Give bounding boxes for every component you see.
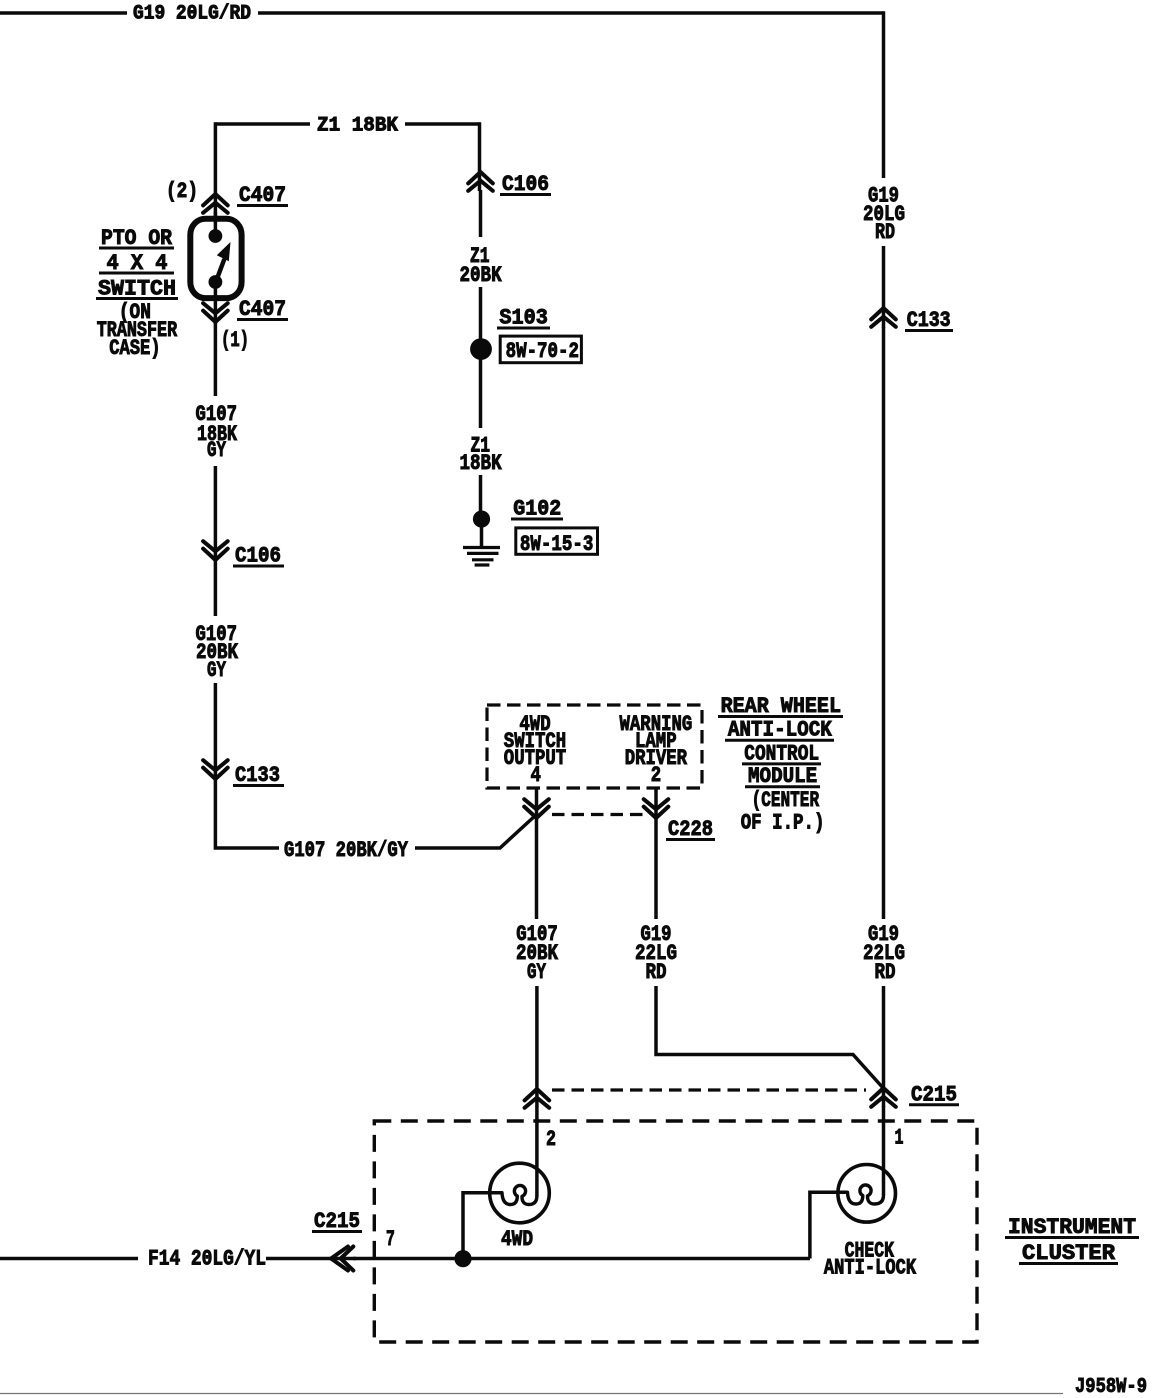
wire segment G107 upper: [214, 322, 218, 396]
label 4WD: [501, 1227, 533, 1252]
lamp 4WD bulb: [490, 1163, 550, 1223]
wire F14 20LG/YL left: [0, 1257, 138, 1261]
wire Z1 segment: [479, 190, 483, 237]
wire Z1 18BK horizontal: [215, 122, 479, 126]
label C133 left: [233, 763, 284, 788]
svg-text:GY: GY: [207, 438, 227, 463]
footer hairline: [0, 1393, 1063, 1395]
label G19 20LG RD right wire: [863, 184, 905, 246]
svg-text:F14 20LG/YL: F14 20LG/YL: [148, 1247, 266, 1272]
label WARNING LAMP DRIVER pin 2: [620, 712, 693, 788]
label G19 20LG/RD: [133, 3, 251, 26]
svg-text:4: 4: [531, 763, 541, 788]
instrument cluster box: [374, 1121, 977, 1342]
wire Z1 to splice: [479, 287, 483, 340]
svg-text:GY: GY: [207, 658, 227, 683]
svg-text:18BK: 18BK: [460, 451, 503, 476]
svg-text:1: 1: [895, 1126, 904, 1151]
label C133 right: [905, 308, 953, 333]
wire G19 right to C215: [882, 986, 886, 1107]
svg-text:RD: RD: [875, 960, 896, 985]
connector C228 dashed link: [552, 813, 643, 816]
label (ON TRANSFER CASE): [97, 300, 178, 361]
wire into switch: [214, 212, 218, 236]
label C228: [666, 817, 715, 842]
svg-text:J958W-9: J958W-9: [1075, 1376, 1147, 1398]
wire Z1 18BK lower segment: [479, 358, 483, 428]
label (1): [221, 328, 249, 353]
wire G19 from pin2 down: [654, 817, 658, 919]
label C407 lower: [237, 297, 288, 322]
svg-text:20BK: 20BK: [460, 263, 503, 288]
connector C407 (1): [203, 303, 228, 322]
lamp CHECK ANTI-LOCK bulb: [838, 1165, 896, 1223]
wire corner Z1 into middle column: [478, 122, 482, 191]
label PTO OR 4X4 SWITCH: [96, 226, 178, 302]
svg-text:ANTI-LOCK: ANTI-LOCK: [824, 1255, 917, 1280]
wire below switch: [214, 282, 218, 324]
connector C133 right wire: [871, 308, 896, 327]
label G19 22LG RD wire3: [863, 922, 905, 985]
label S103: [497, 306, 550, 331]
wire G19 right long segment: [882, 327, 886, 919]
label Z1 18BK middle: [460, 434, 503, 477]
reference box 8W-15-3: [516, 528, 598, 557]
label G19 22LG RD wire2: [635, 922, 677, 985]
label G107 20BK GY wire1: [516, 922, 559, 985]
svg-text:OF I.P.): OF I.P.): [741, 811, 825, 836]
wire riser to CHECK lamp: [810, 1192, 848, 1258]
wire left drop to C407: [214, 122, 218, 219]
label J958W-9: [1075, 1376, 1147, 1398]
label C106 middle: [500, 172, 551, 197]
label pin 2 cluster: [546, 1127, 556, 1152]
label Z1 20BK: [460, 244, 503, 288]
connector C407 (2): [203, 194, 228, 213]
switch lever with arrowhead: [215, 242, 230, 283]
switch contact upper dot: [209, 229, 223, 243]
svg-text:7: 7: [386, 1227, 395, 1252]
wire G107 diagonal to module pin 4: [415, 815, 537, 849]
wire segment below C106 left: [214, 560, 218, 616]
connector C106 middle: [468, 172, 493, 191]
svg-text:2: 2: [546, 1127, 556, 1152]
wire riser to 4WD lamp: [463, 1193, 502, 1259]
label pin 7: [386, 1227, 395, 1252]
ground G102 dot: [473, 510, 490, 527]
label G107 20BK/GY: [284, 838, 409, 863]
connector C133 left: [203, 760, 228, 779]
wire segment to C133 left: [214, 683, 218, 780]
label CHECK ANTI-LOCK: [824, 1238, 917, 1280]
wire to ground dot: [479, 475, 483, 519]
connector C106 left: [203, 541, 228, 560]
connector C215 right: [871, 1088, 896, 1107]
svg-text:G19 20LG/RD: G19 20LG/RD: [133, 3, 251, 26]
label C215 right: [909, 1082, 959, 1107]
connector C228 pin 4: [524, 799, 549, 818]
svg-text:2: 2: [651, 763, 661, 788]
svg-text:Z1 18BK: Z1 18BK: [317, 115, 398, 138]
wire F14 to C215: [266, 1257, 356, 1261]
connector C215 dashed link: [552, 1088, 866, 1091]
switch contact lower dot: [209, 275, 223, 289]
label pin 1 cluster: [895, 1126, 904, 1151]
label C215 left: [312, 1209, 362, 1234]
junction node dot: [454, 1250, 471, 1267]
svg-text:RD: RD: [875, 220, 895, 245]
wire module pin 2 stub: [654, 788, 658, 818]
wire G107 to C215: [535, 986, 539, 1107]
wire G19 pin2 corner diagonal: [656, 986, 884, 1089]
svg-text:(2): (2): [166, 179, 198, 204]
reference box 8W-70-2: [500, 336, 581, 364]
label (2): [166, 179, 198, 204]
wire G107 from pin4 down: [535, 817, 539, 919]
switch PTO/4x4 body: [190, 219, 241, 298]
label INSTRUMENT CLUSTER: [1005, 1215, 1139, 1266]
connector C215 F14: [331, 1247, 353, 1271]
label F14 20LG/YL: [148, 1247, 266, 1272]
ground G102 symbol: [463, 519, 500, 565]
wire G107 into cluster: [535, 1106, 539, 1196]
label 4WD SWITCH OUTPUT pin 4: [504, 712, 566, 788]
wire corner to G107 label: [215, 779, 279, 848]
wire G19 20LG/RD top horizontal: [0, 11, 884, 15]
svg-text:G107 20BK/GY: G107 20BK/GY: [284, 838, 409, 863]
label Z1 18BK: [317, 115, 398, 138]
label REAR WHEEL ANTI-LOCK CONTROL MODULE: [718, 694, 843, 836]
svg-text:CASE): CASE): [109, 336, 160, 361]
svg-text:(CENTER: (CENTER: [752, 788, 820, 813]
label G107 20BK GY left: [196, 622, 239, 683]
svg-text:(1): (1): [221, 328, 249, 353]
svg-text:RD: RD: [646, 960, 667, 985]
label G102: [511, 497, 563, 522]
wire segment to C106 left: [214, 466, 218, 561]
label C407 upper: [237, 183, 288, 208]
svg-text:8W-70-2: 8W-70-2: [506, 339, 579, 364]
label G107 18BK GY: [196, 402, 238, 463]
splice S103 dot: [470, 338, 492, 360]
label C106 left: [233, 544, 284, 569]
connector C228 pin 2: [644, 799, 669, 818]
svg-text:4WD: 4WD: [501, 1227, 533, 1252]
svg-text:GY: GY: [527, 960, 547, 985]
connector C215 wire1: [525, 1089, 550, 1108]
module box rear wheel anti-lock: [487, 705, 702, 788]
wire F14 inside cluster: [353, 1257, 810, 1261]
svg-text:8W-15-3: 8W-15-3: [520, 532, 594, 557]
wire module pin 4 stub: [535, 788, 539, 818]
wire G19 vertical upper right: [882, 11, 886, 178]
wire G19 right segment2: [882, 246, 886, 328]
wire G19 into cluster: [882, 1106, 886, 1195]
